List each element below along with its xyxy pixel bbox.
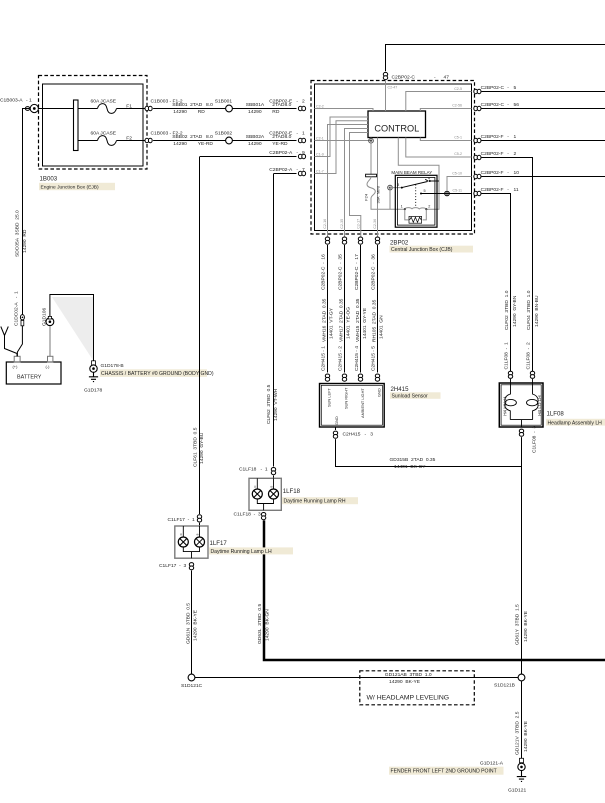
internal wire CONTROL to pin C5-1 xyxy=(420,138,471,141)
wire CJB C2-17 to sensor pin 4 xyxy=(360,245,362,373)
svg-text:C2BP02-C: C2BP02-C xyxy=(392,75,416,81)
svg-text:GND: GND xyxy=(376,388,381,397)
wire C2BP02-F 2 to headlamp pin 2 xyxy=(482,158,533,372)
svg-text:C2-5: C2-5 xyxy=(454,87,462,91)
connector pin C2BP02-E 2 xyxy=(298,106,305,110)
svg-text:2: 2 xyxy=(514,151,517,157)
svg-text:1: 1 xyxy=(401,205,403,209)
svg-text:14290 BK-GN: 14290 BK-GN xyxy=(264,609,270,641)
svg-text:C2BP02-C - 16: C2BP02-C - 16 xyxy=(320,254,326,290)
wire headlamp ground down xyxy=(521,437,523,674)
svg-text:11: 11 xyxy=(514,187,519,193)
svg-text:14290 BK-YE: 14290 BK-YE xyxy=(389,679,421,685)
ring terminal G1D178-B xyxy=(90,361,97,373)
fuse output to relay coil pin 1 xyxy=(371,199,405,210)
relay contact pin 5 xyxy=(420,193,422,195)
svg-text:2TAD: 2TAD xyxy=(190,134,203,140)
wire LH DRL feed to CJB pin A-9 xyxy=(200,156,297,158)
svg-text:(+): (+) xyxy=(13,364,19,369)
svg-text:CLF02 3TBD 1.0: CLF02 3TBD 1.0 xyxy=(504,290,510,330)
fuse F24 element xyxy=(367,177,375,199)
connector pin C2BP02-A 7 xyxy=(298,171,305,175)
wire C2BP02-C 5 to right edge xyxy=(482,91,605,93)
wire splice S1B002 to CJB pin E-1 xyxy=(232,140,296,142)
wire LH DRL ground down xyxy=(191,571,193,675)
svg-text:14401 VT-GY: 14401 VT-GY xyxy=(328,307,334,339)
svg-text:14401 GN: 14401 GN xyxy=(378,315,384,339)
headlamp internal join xyxy=(510,420,532,427)
LH bulb 2 xyxy=(199,526,201,537)
svg-text:C5-2: C5-2 xyxy=(454,152,462,156)
svg-text:- 1: - 1 xyxy=(26,97,32,103)
svg-text:C1LF08 - 1: C1LF08 - 1 xyxy=(504,342,510,369)
fuse F1 60A JCASE xyxy=(98,104,117,114)
wire CJB A-9 down to LH DRL xyxy=(199,157,201,515)
svg-text:47: 47 xyxy=(444,75,450,81)
wire battery positive to ring xyxy=(17,326,22,356)
svg-text:SDC05A 3SBD 25.0: SDC05A 3SBD 25.0 xyxy=(15,210,21,257)
svg-text:BATTERY: BATTERY xyxy=(17,374,42,380)
wire sensor ground to headlamp ground xyxy=(336,439,522,466)
svg-text:C5-10: C5-10 xyxy=(452,172,462,176)
svg-text:CLF61 3TBD 0.5: CLF61 3TBD 0.5 xyxy=(192,427,198,467)
splice S1D121C xyxy=(188,674,195,681)
svg-text:C1LF17 - 3: C1LF17 - 3 xyxy=(159,563,186,569)
wire C2BP02-F 11 to headlamp pin 1 xyxy=(482,194,511,372)
wire CJB A-7 down to RH DRL xyxy=(273,174,275,467)
svg-text:Sunload Sensor: Sunload Sensor xyxy=(392,394,429,400)
svg-text:YE-RD: YE-RD xyxy=(272,141,288,147)
CONTROL box xyxy=(368,111,426,138)
battery box xyxy=(6,362,61,384)
svg-text:14290: 14290 xyxy=(248,109,262,115)
svg-text:CLF62 3TBD 0.5: CLF62 3TBD 0.5 xyxy=(266,384,272,424)
svg-text:Daytime Running Lamp LH: Daytime Running Lamp LH xyxy=(211,549,272,555)
relay coil xyxy=(405,208,427,210)
svg-text:C2H415 - 2: C2H415 - 2 xyxy=(337,346,343,371)
svg-text:Daytime Running Lamp RH: Daytime Running Lamp RH xyxy=(284,499,346,505)
wire RH DRL feed to CJB pin A-7 xyxy=(274,173,297,175)
svg-text:Headlamp Assembly LH: Headlamp Assembly LH xyxy=(548,420,603,426)
wire branch to pin C5-10 xyxy=(447,177,472,191)
connector C1DC02-A eyelet xyxy=(20,315,24,326)
RH internal join xyxy=(257,499,273,510)
svg-text:C5-11: C5-11 xyxy=(452,188,462,192)
LH bulb 1 xyxy=(182,526,184,537)
svg-text:2TAD: 2TAD xyxy=(190,102,203,108)
internal wire sensor 2 xyxy=(345,129,369,244)
svg-text:2BP02: 2BP02 xyxy=(390,239,409,246)
svg-text:C2BP02-C - 17: C2BP02-C - 17 xyxy=(354,254,360,290)
CJB inner box xyxy=(315,84,472,231)
svg-text:60A JCASE: 60A JCASE xyxy=(91,99,117,105)
wire row F1 xyxy=(38,108,145,110)
wire C2BP02-F 10 to right edge xyxy=(482,176,605,178)
svg-text:C2H415 - 4: C2H415 - 4 xyxy=(354,346,360,371)
svg-text:C2-17: C2-17 xyxy=(356,219,360,229)
svg-text:1: 1 xyxy=(514,134,517,140)
connector pin C1LF08 3 xyxy=(519,429,523,436)
svg-text:VMH17 2TAD 0.35: VMH17 2TAD 0.35 xyxy=(339,298,345,342)
svg-text:1: 1 xyxy=(302,130,305,136)
svg-text:S1B002: S1B002 xyxy=(215,130,233,136)
wire battery negative to ring G1D106 gray xyxy=(49,326,51,356)
svg-text:C2-16: C2-16 xyxy=(323,219,327,229)
Engine Junction Box dashed outline xyxy=(39,76,148,170)
svg-text:GD61N 3TBD 0.5: GD61N 3TBD 0.5 xyxy=(186,603,192,644)
LH internal join xyxy=(183,547,199,558)
svg-text:G1D121: G1D121 xyxy=(508,787,526,793)
svg-text:D: D xyxy=(179,533,183,535)
junction C5-10 branch xyxy=(445,191,450,196)
svg-text:14290 VT-WH: 14290 VT-WH xyxy=(273,388,279,421)
wire row F2 xyxy=(78,140,146,142)
svg-text:C2H415 - 3: C2H415 - 3 xyxy=(343,432,374,438)
relay parallel resistor xyxy=(405,209,427,220)
svg-text:C1LF08 - 3: C1LF08 - 3 xyxy=(531,426,537,453)
svg-text:14401 BK-GY: 14401 BK-GY xyxy=(394,464,426,470)
svg-text:C2BP02-C - 35: C2BP02-C - 35 xyxy=(337,254,343,290)
svg-text:FENDER FRONT LEFT 2ND GROUND P: FENDER FRONT LEFT 2ND GROUND POINT xyxy=(391,769,497,775)
wire top C2-47 exit xyxy=(386,45,605,72)
svg-text:C1B003-A: C1B003-A xyxy=(0,97,23,103)
svg-text:C2BP02-A: C2BP02-A xyxy=(269,167,293,173)
wire G1D106 to body ground G1D178 xyxy=(50,295,94,362)
svg-text:C2-1: C2-1 xyxy=(316,136,324,140)
svg-text:C1LF18 - 3: C1LF18 - 3 xyxy=(234,511,261,517)
svg-text:VMH15 2TAD 0.35: VMH15 2TAD 0.35 xyxy=(355,298,361,342)
svg-text:5: 5 xyxy=(424,189,426,193)
splice S1B002 xyxy=(226,137,233,144)
svg-text:14290 GY-BU: 14290 GY-BU xyxy=(199,432,205,464)
internal wire sensor 4 xyxy=(377,138,379,244)
svg-text:CONTROL: CONTROL xyxy=(374,123,419,133)
connector pins sensor top xyxy=(325,374,329,381)
svg-text:GD121V 3TBD 2.5: GD121V 3TBD 2.5 xyxy=(515,711,521,755)
svg-text:C2BP02-F: C2BP02-F xyxy=(481,170,504,176)
svg-text:14290: 14290 xyxy=(173,141,187,147)
daytime running lamp LH box xyxy=(175,526,208,558)
wire CJB C2-16 to sensor pin 1 xyxy=(327,245,329,373)
svg-text:C2-2: C2-2 xyxy=(316,104,324,108)
svg-text:14290: 14290 xyxy=(248,141,262,147)
svg-text:B: B xyxy=(269,486,273,488)
wire RH DRL ground thick xyxy=(264,520,605,660)
svg-text:S1D121B: S1D121B xyxy=(494,682,515,688)
EJB busbar xyxy=(74,100,79,151)
svg-text:Engine Junction Box (EJB): Engine Junction Box (EJB) xyxy=(41,185,100,191)
connector pins CJB bottom xyxy=(325,237,329,244)
svg-text:14401 GY-YE: 14401 GY-YE xyxy=(362,307,368,339)
svg-text:CHASSIS / BATTERY #0 GROUND (B: CHASSIS / BATTERY #0 GROUND (BODY GND) xyxy=(101,371,214,377)
internal wire pin E-1 to junction xyxy=(315,138,372,141)
svg-text:56: 56 xyxy=(514,102,520,108)
svg-text:C1DC02-A - 1: C1DC02-A - 1 xyxy=(14,291,20,326)
connector pin C1LF08 1 xyxy=(508,371,512,378)
svg-text:G1D178: G1D178 xyxy=(84,388,102,394)
wire battery positive to C1B003-A xyxy=(23,109,30,317)
svg-text:GD63L 3TBD 0.5: GD63L 3TBD 0.5 xyxy=(257,603,263,644)
connector pin C2BP02-C 47 xyxy=(383,72,387,79)
svg-text:C2BP02-F: C2BP02-F xyxy=(481,187,504,193)
connector pin C2H415 3 xyxy=(335,427,337,430)
svg-text:AMBIENT LIGHT: AMBIENT LIGHT xyxy=(360,388,365,418)
internal wire C2-47 to CONTROL xyxy=(385,81,387,111)
svg-text:30A MINI: 30A MINI xyxy=(376,186,381,204)
svg-text:C2BP02-E: C2BP02-E xyxy=(269,98,293,104)
svg-text:RH105 2TAD 0.35: RH105 2TAD 0.35 xyxy=(372,299,378,342)
svg-text:2: 2 xyxy=(302,98,305,104)
svg-text:14290 GY-BN: 14290 GY-BN xyxy=(512,295,518,327)
svg-text:GD61Y 3TBD 1.5: GD61Y 3TBD 1.5 xyxy=(515,604,521,645)
wire S1D121B to ground eyelet xyxy=(521,681,523,758)
svg-text:YE-RD: YE-RD xyxy=(198,141,214,147)
svg-text:SBB02: SBB02 xyxy=(172,134,188,140)
internal wire pin A-7 to CONTROL xyxy=(315,121,369,174)
svg-text:GD121AB 3TBD 1.0: GD121AB 3TBD 1.0 xyxy=(385,672,432,678)
svg-text:C5-1: C5-1 xyxy=(454,136,462,140)
svg-text:SBB01A: SBB01A xyxy=(246,102,265,108)
connector pins CJB right edge xyxy=(474,89,481,93)
wire F2 row EJB to splice S1B002 xyxy=(153,140,226,142)
wire relay pin 5 output xyxy=(421,193,472,195)
svg-text:2H415: 2H415 xyxy=(391,386,410,393)
svg-text:F2: F2 xyxy=(126,136,132,142)
RH bulb 2 xyxy=(273,478,275,489)
Central Junction Box dashed outline xyxy=(311,81,475,235)
svg-text:60A JCASE: 60A JCASE xyxy=(91,131,117,137)
svg-text:W/ HEADLAMP LEVELING: W/ HEADLAMP LEVELING xyxy=(367,694,450,701)
svg-text:C2BP02-C: C2BP02-C xyxy=(481,85,505,91)
svg-text:14290 BN-BU: 14290 BN-BU xyxy=(534,295,540,327)
wire F1 row EJB to splice S1B001 xyxy=(153,108,226,110)
battery negative post xyxy=(48,356,53,362)
svg-text:C2H415 - 1: C2H415 - 1 xyxy=(320,346,326,371)
wire C2BP02-C 56 to right edge xyxy=(482,108,605,110)
svg-text:H4 HI LH: H4 HI LH xyxy=(502,397,507,416)
svg-text:C1LF17 - 1: C1LF17 - 1 xyxy=(168,517,195,523)
wire splice S1B001 to CJB pin E-2 xyxy=(232,108,296,110)
svg-text:VMH16 2TAD 0.35: VMH16 2TAD 0.35 xyxy=(322,298,328,342)
svg-text:14290 RD: 14290 RD xyxy=(22,229,28,253)
svg-text:5: 5 xyxy=(514,85,517,91)
fuse F2 60A JCASE xyxy=(98,136,117,146)
internal wire pin A-9 to CONTROL xyxy=(315,117,369,157)
EJB inner box xyxy=(43,84,144,166)
daytime running lamp RH box xyxy=(249,478,281,510)
headlamp assembly box xyxy=(499,383,543,427)
svg-text:RD: RD xyxy=(198,109,206,115)
svg-text:14401 YE-OG: 14401 YE-OG xyxy=(345,307,351,339)
wire C2BP02-F 1 to right edge xyxy=(482,140,605,142)
svg-text:1LF08: 1LF08 xyxy=(547,410,565,417)
relay actuation dotted line xyxy=(415,185,417,207)
wire junction to relay pin 3 and down to fuse line xyxy=(390,188,402,210)
svg-text:14290: 14290 xyxy=(173,109,187,115)
svg-text:F1: F1 xyxy=(126,103,132,109)
internal wire sensor 1 xyxy=(328,125,369,244)
ground symbol G1D178 xyxy=(89,372,98,381)
sunload sensor box xyxy=(320,384,385,428)
svg-text:SUN RIGHT: SUN RIGHT xyxy=(343,387,348,409)
dashed option box W/ HEADLAMP LEVELING xyxy=(360,671,475,705)
svg-text:B: B xyxy=(196,533,200,535)
internal wire pin E-2 to CONTROL xyxy=(315,109,374,112)
connector C1B003-A ring xyxy=(25,104,38,112)
svg-text:2: 2 xyxy=(428,205,430,209)
junction below CONTROL xyxy=(369,138,374,143)
svg-text:C1-7: C1-7 xyxy=(316,169,324,173)
svg-text:8.0: 8.0 xyxy=(206,102,213,108)
splice S1D121B xyxy=(518,674,525,681)
headlamp bulb low beam xyxy=(533,379,539,420)
internal wire sensor 3 xyxy=(350,133,369,244)
internal wire CONTROL to relay coil pin 2 and contact 4 xyxy=(398,138,439,210)
svg-text:Central Junction Box (CJB): Central Junction Box (CJB) xyxy=(391,247,453,253)
svg-text:4: 4 xyxy=(428,176,430,180)
svg-text:3: 3 xyxy=(397,183,399,187)
ring terminal G1D121-A xyxy=(518,758,525,770)
wire S1D121C to S1D121B xyxy=(195,677,518,679)
svg-text:14290 BK-YE: 14290 BK-YE xyxy=(193,609,199,641)
svg-text:C2-47: C2-47 xyxy=(388,86,398,90)
svg-text:G1D106: G1D106 xyxy=(42,308,48,326)
internal wire CONTROL to pin C5-2 xyxy=(406,138,472,158)
svg-text:GND: GND xyxy=(334,416,339,425)
svg-text:RD: RD xyxy=(272,109,280,115)
svg-text:SUN LEFT: SUN LEFT xyxy=(326,388,331,407)
svg-text:H4 LO LH: H4 LO LH xyxy=(537,395,542,415)
internal wire CONTROL to pin C2-5 xyxy=(406,92,472,112)
connector pin C1LF08 2 xyxy=(530,371,534,378)
svg-text:C2-36: C2-36 xyxy=(373,219,377,229)
svg-text:MAIN BEAM RELAY: MAIN BEAM RELAY xyxy=(391,170,432,175)
svg-text:C1LF18 - 1: C1LF18 - 1 xyxy=(239,467,268,473)
svg-text:G1D121-A: G1D121-A xyxy=(480,760,504,766)
svg-text:SBB02A: SBB02A xyxy=(246,134,265,140)
svg-text:C2BP02-C - 36: C2BP02-C - 36 xyxy=(370,254,376,290)
svg-text:8.0: 8.0 xyxy=(206,134,213,140)
svg-text:C1LF08 - 2: C1LF08 - 2 xyxy=(525,342,531,369)
svg-text:10: 10 xyxy=(514,170,520,176)
svg-text:C2BP02-C: C2BP02-C xyxy=(481,102,505,108)
splice S1B001 xyxy=(226,105,233,112)
svg-text:SBB01: SBB01 xyxy=(172,102,188,108)
relay contact arm pins 3-4 xyxy=(401,187,403,189)
svg-text:C2-35: C2-35 xyxy=(340,219,344,229)
svg-text:GD315B 2TAD 0.35: GD315B 2TAD 0.35 xyxy=(390,457,436,463)
svg-text:C2BP02-A: C2BP02-A xyxy=(269,150,293,156)
headlamp bulb high beam xyxy=(505,379,511,420)
svg-text:S1D121C: S1D121C xyxy=(181,683,203,689)
svg-text:C1-9: C1-9 xyxy=(316,152,324,156)
svg-text:1LF17: 1LF17 xyxy=(210,540,228,547)
RH bulb 1 xyxy=(256,478,258,489)
connector pin C2BP02-A 9 xyxy=(298,154,305,158)
wire CJB C2-35 to sensor pin 2 xyxy=(344,245,346,373)
internal wire CONTROL to pin C2-56 xyxy=(420,109,471,112)
battery positive post xyxy=(14,356,20,362)
ground cable shade xyxy=(52,297,94,361)
svg-text:CLF04 3TBD 1.0: CLF04 3TBD 1.0 xyxy=(526,290,532,330)
svg-text:S1B001: S1B001 xyxy=(215,98,233,104)
svg-text:C2BP02-F: C2BP02-F xyxy=(481,134,504,140)
relay MAIN BEAM RELAY box xyxy=(395,175,437,227)
svg-text:G1D178-B: G1D178-B xyxy=(101,363,124,369)
svg-text:14290 BK-YE: 14290 BK-YE xyxy=(523,610,529,642)
svg-text:14290 BK-YE: 14290 BK-YE xyxy=(523,720,529,752)
connector pin C2BP02-E 1 xyxy=(298,138,305,142)
ring terminal G1D106 xyxy=(46,316,54,325)
junction relay pin 3 xyxy=(388,185,393,190)
svg-text:D: D xyxy=(253,486,257,488)
svg-text:F24: F24 xyxy=(364,193,369,201)
svg-text:C2BP02-E: C2BP02-E xyxy=(269,130,293,136)
fuse F24 feed xyxy=(370,143,372,174)
wire CJB C2-36 to sensor pin 5 xyxy=(377,245,379,373)
svg-text:1LF18: 1LF18 xyxy=(283,488,301,495)
ground symbol G1D121 xyxy=(517,771,526,782)
svg-text:C2BP02-F: C2BP02-F xyxy=(481,151,504,157)
connector pin C1B003-E F1 xyxy=(145,106,152,110)
connector pin C1B003-E F2 xyxy=(145,138,152,142)
svg-text:C2-56: C2-56 xyxy=(452,104,462,108)
off-page cable fork xyxy=(1,327,17,357)
svg-text:C2H415 - 5: C2H415 - 5 xyxy=(370,346,376,371)
fuse F24 cap xyxy=(366,174,377,177)
svg-text:1B003: 1B003 xyxy=(40,176,58,183)
